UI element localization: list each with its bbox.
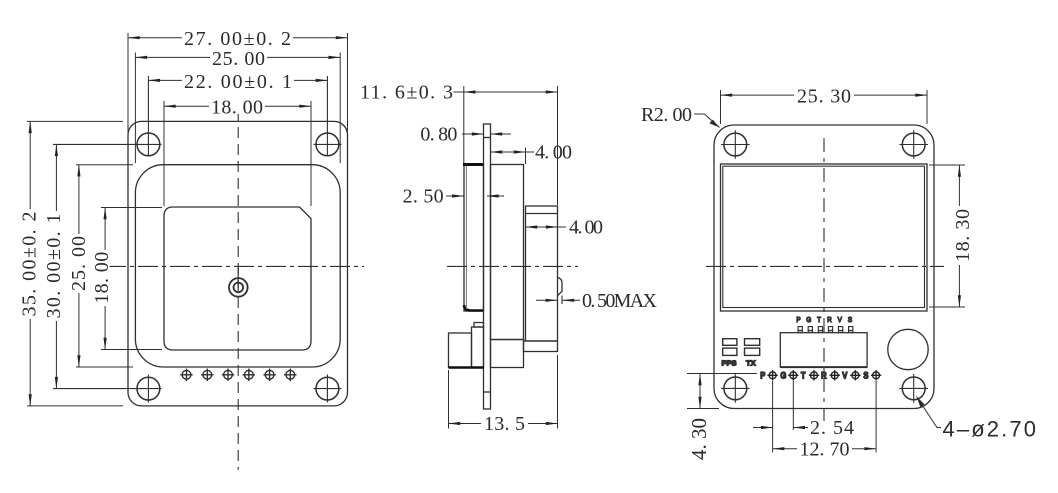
dimension 22.00±0.1 [148, 79, 327, 81]
back view body outline [714, 125, 934, 409]
text 13.5 [481, 416, 528, 431]
battery block side [526, 206, 558, 341]
mounting hole top-right [316, 133, 339, 156]
svg-text:TX: TX [746, 359, 756, 368]
back mounting hole top-left [724, 133, 747, 156]
back shield outer rectangle [721, 164, 928, 311]
dimension 4.00 lower [526, 226, 567, 228]
back pin header block side [491, 340, 524, 368]
svg-text:25. 00: 25. 00 [212, 48, 265, 70]
dimension 30.00±0.1 left [55, 144, 57, 388]
dimension 11.6±0.3 [464, 91, 558, 93]
svg-text:18. 30: 18. 30 [952, 209, 974, 262]
svg-text:T: T [801, 370, 806, 381]
svg-text:4. 00: 4. 00 [535, 142, 572, 164]
svg-text:13. 5: 13. 5 [484, 413, 525, 435]
R2.00 leader [694, 114, 720, 128]
back vertical centerline [823, 138, 825, 421]
solder bump 0.50MAX [558, 278, 563, 296]
leader 4-2.70 [917, 397, 942, 428]
mounting hole bottom-right [316, 377, 339, 400]
dimension 18.00 top [164, 101, 311, 206]
svg-text:25. 00: 25. 00 [68, 236, 90, 291]
dimension 2.54 [753, 381, 808, 453]
svg-text:4. 00: 4. 00 [569, 217, 603, 239]
text 27.00±0.2 [182, 30, 293, 46]
module shield block side [491, 165, 524, 340]
text 18.30 rotated [954, 206, 970, 265]
text 4.30 rotated [690, 415, 706, 463]
svg-text:4. 30: 4. 30 [687, 418, 711, 460]
svg-text:30. 00±0. 1: 30. 00±0. 1 [43, 214, 65, 319]
battery circle [888, 329, 928, 369]
hole center cross top-right [314, 76, 342, 157]
side extension line right [557, 86, 559, 205]
svg-text:P: P [796, 316, 801, 324]
dimension 0.50MAX arrows [536, 299, 580, 301]
back mounting hole top-right [902, 133, 925, 156]
front vertical centerline [237, 110, 239, 470]
svg-text:S: S [863, 370, 868, 381]
mounting hole bottom-left [137, 377, 160, 400]
front inner recess rounded rectangle [135, 165, 340, 367]
header pins [798, 327, 853, 333]
svg-text:0. 80: 0. 80 [420, 124, 457, 146]
svg-text:12. 70: 12. 70 [800, 438, 850, 460]
dimension 2.50 leader [446, 195, 504, 197]
dimension 25.30 [721, 90, 928, 124]
text 25.00 top [210, 50, 267, 65]
svg-text:35. 00±0. 2: 35. 00±0. 2 [19, 212, 41, 317]
header pin labels PGTRVS [796, 316, 852, 324]
svg-text:4–ø2.70: 4–ø2.70 [943, 417, 1037, 442]
dimension 18.30 [929, 165, 965, 307]
dimension 13.5 [449, 355, 558, 429]
svg-text:T: T [817, 316, 822, 324]
ceramic patch antenna outline [164, 207, 311, 350]
svg-text:0. 50MAX: 0. 50MAX [582, 290, 658, 312]
svg-text:25. 30: 25. 30 [797, 86, 851, 108]
LED labels PPS TX [722, 359, 756, 368]
header connector body [780, 333, 867, 367]
text 12.70 [797, 442, 852, 457]
text 25.00 rotated [71, 234, 87, 293]
svg-text:2. 54: 2. 54 [810, 417, 854, 439]
PCB side profile [484, 124, 491, 409]
back shield inner rectangle [723, 166, 925, 307]
svg-text:G: G [806, 316, 811, 324]
svg-text:G: G [780, 370, 786, 381]
back mounting hole bottom-left [724, 377, 747, 400]
svg-text:R: R [827, 316, 832, 324]
dimension 4.30 [687, 374, 757, 409]
hole center cross bottom-left [53, 375, 162, 403]
dimension 27.00±0.2 [128, 33, 348, 134]
text 25.30 [794, 88, 854, 103]
svg-text:V: V [838, 316, 843, 324]
text 18.00 rotated [94, 250, 110, 306]
LED indicator rectangles [723, 339, 760, 356]
svg-text:P: P [760, 370, 765, 381]
front horizontal centerline [106, 265, 364, 267]
side extension line left [463, 86, 465, 164]
hole center cross bottom-right [314, 375, 342, 403]
svg-text:18. 00: 18. 00 [211, 97, 263, 119]
patch feed point circles [229, 278, 248, 297]
svg-text:27. 00±0. 2: 27. 00±0. 2 [184, 28, 291, 50]
solder pad row front view [180, 369, 296, 381]
svg-text:S: S [848, 316, 853, 324]
text 30.00±0.1 rotated [46, 211, 62, 321]
antenna block side [463, 165, 484, 312]
svg-text:22. 00±0. 1: 22. 00±0. 1 [184, 71, 292, 93]
dimension 35.00±0.2 left [27, 121, 123, 406]
svg-text:R: R [821, 370, 827, 381]
back horizontal centerline [706, 265, 944, 267]
dimension 4.00 upper [491, 148, 535, 165]
svg-text:PPS: PPS [722, 359, 737, 368]
svg-text:2. 50: 2. 50 [403, 186, 444, 208]
front view body outline [128, 121, 348, 406]
mounting hole top-left [137, 133, 160, 156]
hole center cross top-left [53, 76, 162, 157]
side horizontal centerline [447, 265, 578, 267]
back pad letters [760, 370, 869, 381]
svg-text:18. 00: 18. 00 [91, 252, 113, 304]
back pad row with labels [767, 370, 881, 380]
svg-text:11. 6±0. 3: 11. 6±0. 3 [360, 82, 453, 104]
back hole crosses [721, 130, 928, 403]
back mounting hole bottom-right [902, 377, 925, 400]
text 22.00±0.1 [182, 73, 294, 88]
dimension 25.00 top [135, 53, 340, 164]
svg-text:R2. 00: R2. 00 [641, 104, 692, 126]
text 18.00 top [209, 99, 265, 114]
front connector housing side [449, 323, 485, 368]
header pins strip side [524, 341, 558, 352]
dimension 0.80 [462, 133, 511, 135]
dimension 18.00 left [101, 208, 162, 350]
dimension 25.00 left [76, 165, 133, 367]
text 35.00±0.2 rotated [21, 209, 37, 319]
svg-text:V: V [842, 370, 847, 381]
dimension 12.70 [773, 381, 877, 453]
